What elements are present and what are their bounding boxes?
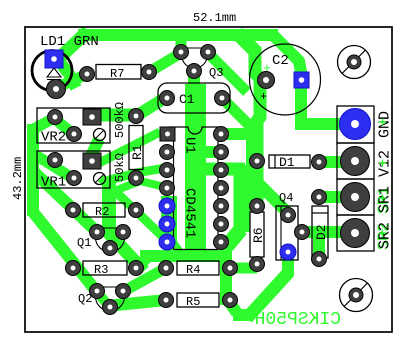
wire VR1 screw to pad 152 stripe bbox=[102, 168, 165, 182]
LED LD1 circle bbox=[32, 51, 72, 91]
svg-text:52.1mm: 52.1mm bbox=[193, 11, 236, 25]
svg-text:50kΩ: 50kΩ bbox=[113, 153, 127, 182]
wire Q2 left to bottom bbox=[96, 291, 109, 306]
wire Q2 bottom to R5 left bbox=[107, 300, 166, 306]
pad C2 minus bbox=[258, 72, 275, 89]
resistor R6 box bbox=[250, 212, 264, 257]
svg-text:R5: R5 bbox=[186, 295, 200, 309]
svg-text:+: + bbox=[260, 90, 267, 104]
terminal V12 square bbox=[337, 143, 374, 179]
capacitor C2 circle bbox=[250, 44, 321, 115]
svg-text:R1: R1 bbox=[130, 144, 145, 160]
wire D2 top to SR1 bbox=[319, 191, 350, 203]
resistor R4 box bbox=[177, 261, 219, 275]
pad SR1 bbox=[341, 183, 370, 212]
svg-text:D1: D1 bbox=[279, 155, 295, 170]
pad GND blue bbox=[340, 109, 371, 140]
wire C1 left to R1 top bbox=[136, 98, 165, 116]
resistor R2 box bbox=[83, 203, 125, 217]
pad C2 plus blue square bbox=[294, 72, 309, 88]
pads VR1 bbox=[48, 153, 63, 168]
wire D1 right to V12 bbox=[319, 156, 350, 168]
diode D2 box bbox=[312, 206, 328, 258]
svg-text:C2: C2 bbox=[272, 53, 289, 69]
trimmer VR1 screw bbox=[94, 173, 106, 185]
diode D1 box bbox=[269, 155, 310, 168]
trimmer VR2 box bbox=[37, 108, 110, 143]
transistor Q3 outline bbox=[182, 48, 208, 68]
svg-text:R2: R2 bbox=[95, 205, 109, 219]
resistor R1 box bbox=[129, 126, 143, 170]
pads Q1 bbox=[90, 225, 105, 240]
origin cross GND bbox=[379, 119, 386, 126]
origin cross V12 bbox=[379, 160, 386, 167]
wire Q2 right to R4 left bbox=[124, 268, 166, 291]
wire D2 vertical bbox=[313, 230, 325, 257]
wire trunk B vertical bbox=[255, 49, 260, 207]
origin cross SR1 bbox=[379, 195, 386, 202]
transistor Q1 outline bbox=[96, 228, 125, 252]
wire R7 right to Q3 left bbox=[149, 53, 181, 72]
wire trunk to VR2 pad bbox=[30, 118, 74, 135]
terminal GND square bbox=[337, 106, 374, 143]
wire C1 right diag to trunk B bbox=[222, 98, 251, 127]
pads Q3 bbox=[174, 45, 189, 60]
pad Q4 blue bbox=[280, 244, 296, 260]
pads R5 bbox=[159, 293, 174, 308]
wire Q4 mid to SR2 bbox=[302, 226, 350, 238]
mounting hole top bbox=[338, 46, 371, 79]
wire top band bbox=[56, 31, 88, 61]
svg-text:R4: R4 bbox=[186, 263, 200, 277]
pad SR2 bbox=[341, 219, 370, 248]
wire band diag to trunk B bbox=[237, 33, 257, 53]
svg-text:VR2: VR2 bbox=[41, 130, 66, 146]
svg-text:U1: U1 bbox=[182, 137, 198, 154]
svg-text:SR2: SR2 bbox=[377, 222, 394, 249]
IC U1 outline bbox=[169, 127, 221, 250]
wire trunk to R3 left to Q2 left bbox=[33, 212, 96, 291]
wire trunk A bbox=[202, 163, 245, 176]
trimmer VR2 screw bbox=[94, 129, 106, 141]
pads C1 bbox=[160, 91, 175, 106]
wire Q1 area diag to R3 right bbox=[104, 228, 144, 271]
wire VR2 screw to VR1 square bbox=[91, 139, 99, 156]
wire band diag2 to C2 blue bbox=[271, 33, 301, 72]
pads R4 bbox=[159, 261, 174, 276]
svg-text:Q2: Q2 bbox=[78, 292, 92, 306]
wire Q3 right diag bbox=[208, 53, 247, 92]
wire band R4 row bbox=[140, 250, 230, 262]
resistor R7 box bbox=[96, 65, 141, 80]
mounting hole rings bbox=[347, 55, 361, 69]
pads Q2 bbox=[90, 284, 105, 299]
svg-text:R6: R6 bbox=[251, 227, 266, 243]
svg-text:D2: D2 bbox=[314, 224, 329, 240]
wire C2 blue down to GND bbox=[301, 70, 350, 124]
terminal SR1 square bbox=[337, 179, 374, 215]
svg-text:Q1: Q1 bbox=[77, 236, 91, 250]
svg-text:CD4541: CD4541 bbox=[182, 188, 198, 238]
pads U1 blue bbox=[159, 198, 175, 214]
pads D1 bbox=[250, 154, 265, 169]
wire central trunk bbox=[188, 69, 200, 90]
svg-text:R3: R3 bbox=[94, 263, 108, 277]
wire LED pad to R7 bbox=[56, 74, 87, 88]
pads R7 bbox=[80, 67, 95, 82]
transistor Q2 outline bbox=[96, 287, 125, 311]
pads VR2 bbox=[48, 110, 63, 125]
pads U1 right column bbox=[214, 127, 229, 142]
transistor Q4 box bbox=[276, 206, 298, 260]
wire trunk B to Q4 top bbox=[257, 182, 288, 213]
wire vertical through R2 bbox=[102, 182, 116, 231]
pads R3 bbox=[66, 261, 81, 276]
pads R1 bbox=[129, 109, 144, 124]
wire Q3 left up to band bbox=[176, 33, 187, 54]
svg-text:Q3: Q3 bbox=[209, 66, 223, 80]
board outline bbox=[25, 27, 392, 332]
pad V12 bbox=[341, 147, 370, 176]
wire LED blue to left trunk bbox=[58, 60, 76, 88]
wire R4 left stub bbox=[161, 254, 171, 268]
pads U1 left column bbox=[160, 145, 175, 160]
wire R2 right bend bbox=[101, 178, 165, 239]
wire trunk to VR1 pad bbox=[34, 154, 74, 179]
wire R1 top to VR2 square bbox=[92, 109, 140, 122]
wire bottom loop bbox=[228, 300, 237, 313]
svg-text:+: + bbox=[263, 61, 271, 76]
svg-text:Q4: Q4 bbox=[279, 191, 293, 205]
resistor R5 box bbox=[177, 293, 219, 307]
pads D2 bbox=[312, 190, 327, 205]
trimmer VR1 box bbox=[37, 151, 110, 188]
svg-text:GND: GND bbox=[377, 111, 394, 138]
terminal SR2 square bbox=[337, 215, 374, 251]
svg-text:R7: R7 bbox=[110, 67, 124, 81]
svg-text:LD1 GRN: LD1 GRN bbox=[40, 34, 99, 50]
mounting hole bottom bbox=[340, 279, 373, 312]
wire trunk to R2 left to Q1 left bbox=[31, 169, 97, 232]
wire left trunk bbox=[27, 124, 39, 216]
pad LED cathode bbox=[47, 80, 66, 99]
resistor R3 box bbox=[83, 261, 127, 275]
capacitor C1 box bbox=[158, 83, 230, 113]
svg-text:SR1: SR1 bbox=[377, 186, 394, 213]
pads R2 bbox=[66, 203, 81, 218]
wire pad13 to central trunk bbox=[204, 146, 221, 158]
pads Q4 bbox=[281, 208, 296, 223]
svg-text:43.2mm: 43.2mm bbox=[11, 157, 25, 200]
wire stripe to pad 188 bbox=[112, 181, 165, 192]
svg-text:VR1: VR1 bbox=[41, 175, 66, 191]
pad LED anode blue square bbox=[45, 50, 63, 68]
origin cross SR2 bbox=[379, 230, 386, 237]
LED LD1 triangle bbox=[47, 68, 61, 80]
pad U1 pin1 square bbox=[160, 127, 175, 141]
svg-text:500kΩ: 500kΩ bbox=[113, 102, 127, 138]
wire pad14 to trunk B bbox=[221, 128, 252, 140]
wire R4 right to R6 bottom bbox=[230, 263, 257, 274]
svg-text:C1: C1 bbox=[179, 92, 195, 107]
svg-text:CIKSP50H: CIKSP50H bbox=[255, 310, 341, 330]
pads R6 bbox=[250, 199, 265, 214]
wire VR1 square to pin1 stripe bbox=[99, 132, 160, 163]
